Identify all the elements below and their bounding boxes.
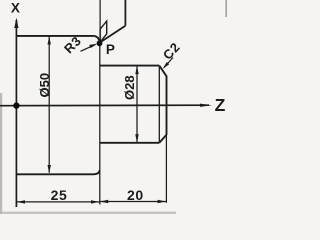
right extension line: [165, 135, 167, 203]
fillet R3 bottom: [93, 170, 100, 174]
dim 20 arrow left: [100, 200, 108, 203]
right face: [166, 76, 168, 135]
X axis: [15, 20, 17, 207]
dim O50 arrow up: [48, 36, 51, 44]
C2 leader line: [164, 58, 173, 68]
part top line O28: [100, 65, 160, 67]
dim O28 arrow down: [135, 134, 138, 142]
tool insert parallelogram: [100, 21, 107, 42]
scan artifact bottom edge: [0, 212, 176, 214]
X axis arrowhead: [14, 18, 18, 29]
tool tip dot P: [97, 40, 103, 46]
dim 25 arrow left: [17, 200, 25, 203]
R3 leader arrowhead: [89, 44, 97, 48]
step face / extension line x=99.8: [99, 43, 101, 205]
Z axis arrowhead: [200, 104, 212, 107]
origin dot: [13, 102, 19, 108]
svg-text:P: P: [106, 42, 115, 57]
part bottom line O50: [16, 173, 93, 175]
svg-text:X: X: [11, 0, 20, 15]
dim O28 arrow up: [135, 66, 138, 74]
CNC turning part drawing: [0, 0, 227, 214]
svg-text:25: 25: [51, 187, 68, 203]
C2 leader arrowhead: [163, 62, 170, 69]
dim O50 line: [48, 37, 50, 173]
svg-text:Ø28: Ø28: [122, 75, 137, 100]
svg-text:Z: Z: [215, 95, 226, 115]
svg-text:Ø50: Ø50: [37, 73, 52, 98]
dim O50 arrow down: [48, 165, 51, 173]
dim O28 line: [136, 66, 138, 142]
R3 leader line: [81, 44, 96, 51]
part bottom line O28: [100, 142, 160, 144]
fillet R3 top: [94, 36, 100, 45]
scan artifact top-right corner: [225, 0, 227, 17]
tool edge diagonal: [100, 26, 125, 43]
tool shank right line: [124, 0, 126, 26]
chamfer edge line: [158, 66, 160, 143]
chamfer C2 bottom: [159, 135, 166, 143]
dim 25 arrow right: [91, 200, 99, 203]
chamfer C2 top: [159, 66, 166, 77]
dim 25 line: [16, 201, 99, 203]
tool shank left line: [99, 0, 101, 42]
scan artifact left edge: [0, 93, 2, 214]
dim 20 arrow right: [158, 200, 166, 203]
svg-text:20: 20: [127, 187, 144, 203]
part top line O50: [16, 35, 94, 37]
dim 20 line: [100, 201, 167, 203]
Z axis: [0, 104, 209, 107]
